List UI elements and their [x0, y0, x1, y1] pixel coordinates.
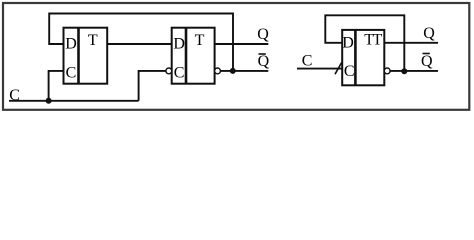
flip-flop U3 box: [342, 30, 384, 85]
svg-text:D: D: [342, 34, 354, 51]
flip-flop U2 box: [172, 28, 215, 84]
wire: feedback from Q3-bar line up and over to D input of U3: [325, 15, 404, 71]
label Q-bar output (left circuit): [258, 53, 270, 70]
wire: U2 Q output: [215, 43, 269, 45]
pin label C of U2: [174, 65, 185, 82]
svg-text:T: T: [88, 32, 98, 49]
node: junction dot on Q1-bar line: [230, 68, 236, 74]
wire: U2 Q-bar output: [220, 70, 268, 72]
inversion bubble on U3 Q-bar output: [384, 68, 390, 74]
node: junction dot on C bus: [46, 98, 52, 104]
label T of U1: [88, 32, 98, 49]
dynamic-input slash on U3 C pin: [335, 63, 342, 75]
inversion bubble on U2 Q-bar output: [215, 68, 221, 74]
label TT of U3: [364, 32, 382, 49]
svg-text:C: C: [344, 63, 355, 80]
label: clock input C (left circuit): [9, 87, 20, 104]
svg-text:Q: Q: [257, 26, 269, 43]
svg-text:C: C: [174, 65, 185, 82]
wire: U3 Q-bar output: [390, 70, 438, 72]
svg-text:D: D: [65, 36, 77, 53]
svg-text:Q: Q: [258, 53, 270, 70]
wire: feedback from Q1-bar line up and over to D input of U1: [49, 14, 233, 72]
svg-text:Q: Q: [423, 25, 435, 42]
label Q-bar output (right circuit): [421, 53, 433, 70]
wire: U3 Q output: [384, 42, 438, 44]
wire: U1 Q output to U2 D input: [107, 43, 172, 45]
wire: C clock bus: [9, 100, 139, 102]
pin label D of U3: [342, 34, 354, 51]
label Q output (left circuit): [257, 26, 269, 43]
inversion bubble on U2 C input: [166, 68, 172, 74]
pin label D of U2: [173, 36, 185, 53]
node: junction dot on Q3-bar line: [401, 68, 407, 74]
pin label C of U3: [344, 63, 355, 80]
wire: C bus branch to U2 C input: [139, 71, 166, 101]
wire: C input to U3: [297, 68, 342, 70]
svg-text:C: C: [302, 53, 313, 70]
svg-text:C: C: [66, 65, 77, 82]
flip-flop U1 box: [64, 28, 108, 84]
label T of U2: [195, 32, 205, 49]
pin label D of U1: [65, 36, 77, 53]
svg-text:T: T: [195, 32, 205, 49]
pin label C of U1: [66, 65, 77, 82]
svg-text:Q: Q: [421, 53, 433, 70]
label: clock input C (right circuit): [302, 53, 313, 70]
svg-text:D: D: [173, 36, 185, 53]
border frame: [3, 3, 469, 110]
wire: C bus branch to U1 C input: [49, 71, 64, 101]
svg-text:TT: TT: [364, 32, 382, 49]
label Q output (right circuit): [423, 25, 435, 42]
